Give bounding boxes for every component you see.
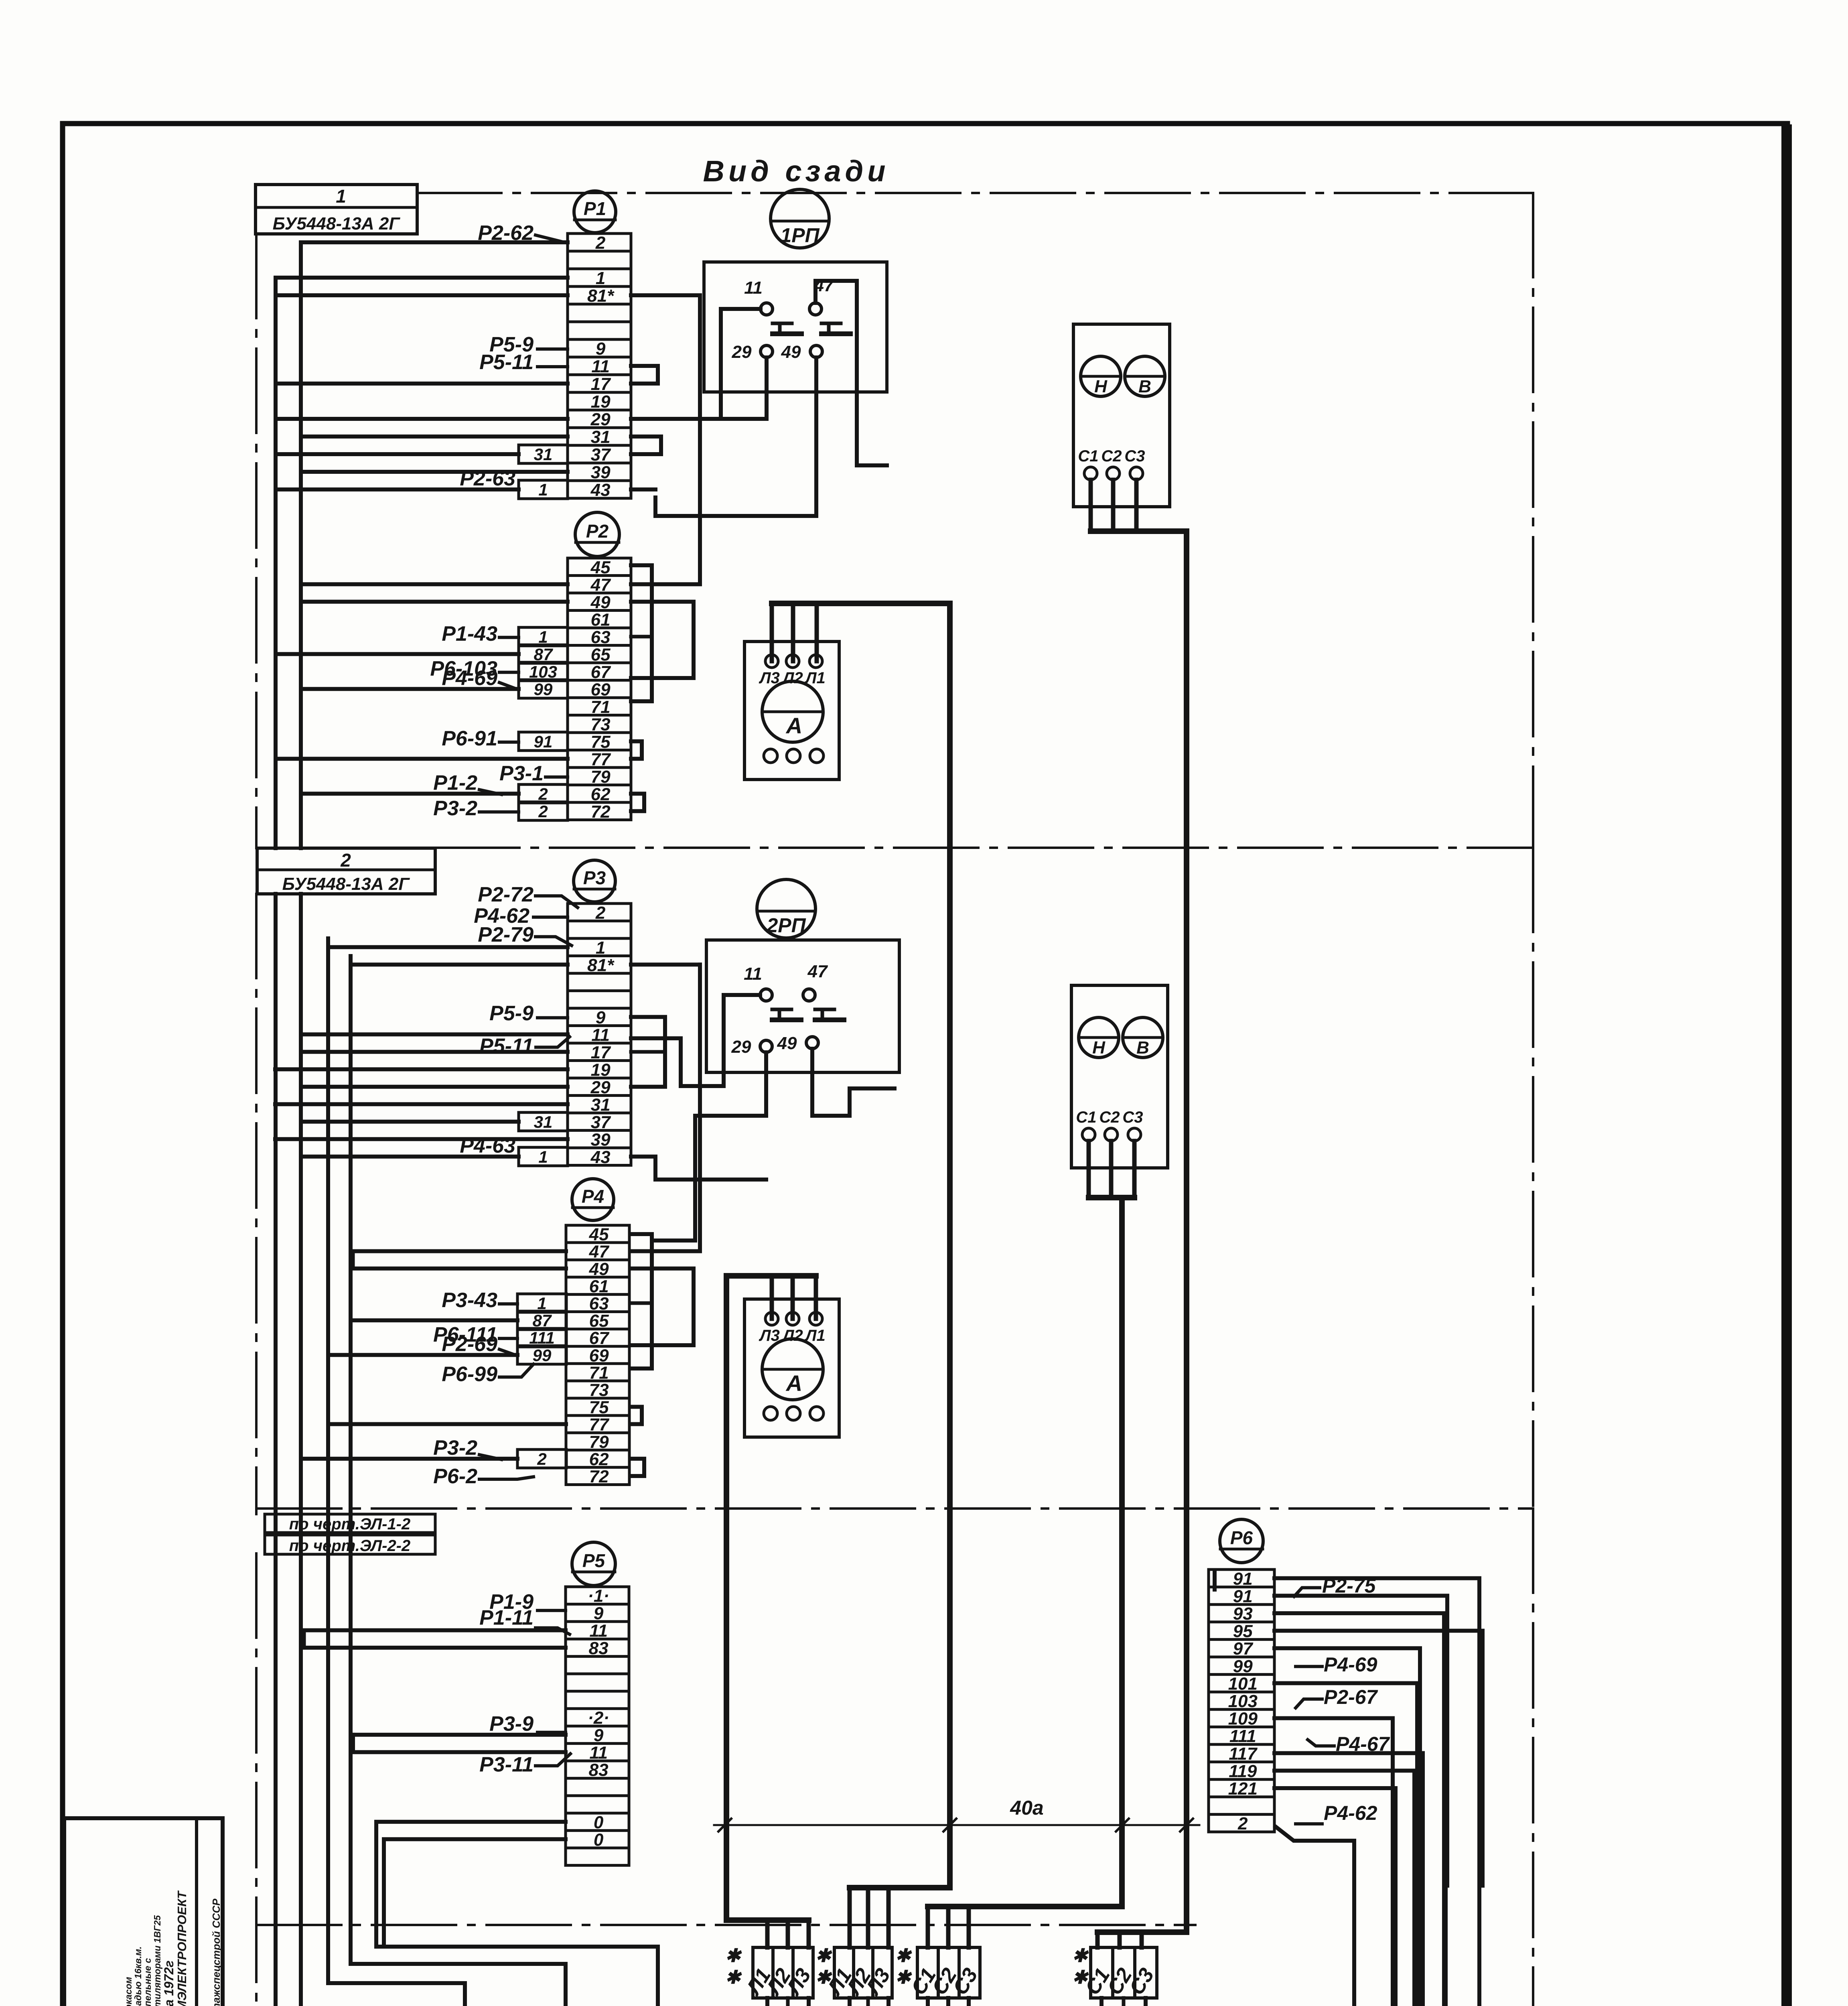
wire to Р3 row 10: [275, 1067, 568, 1071]
wire Р1-2 to Р2:62: [479, 790, 501, 794]
svg-text:2: 2: [595, 233, 606, 253]
svg-text:29: 29: [590, 1078, 611, 1097]
svg-text:95: 95: [1233, 1622, 1253, 1641]
wire Р6:95 down: [1274, 1631, 1483, 1886]
jumper Р1:31-37: [631, 437, 661, 454]
svg-text:1: 1: [538, 1147, 548, 1166]
svg-text:67: 67: [591, 662, 611, 682]
jumper Р3:81-Р4:47: [631, 964, 700, 1251]
svg-text:17: 17: [591, 1043, 611, 1062]
title block rotated text: [71, 1890, 222, 2006]
svg-text:47: 47: [589, 1242, 610, 1262]
Р4 right-side jumpers: [630, 1234, 652, 1368]
wire to Р4 row 8: [328, 1353, 517, 1357]
svg-text:0: 0: [594, 1813, 604, 1832]
svg-text:43: 43: [590, 1147, 611, 1167]
svg-text:37: 37: [591, 1113, 611, 1132]
svg-text:Р1-43: Р1-43: [442, 622, 497, 646]
svg-text:99: 99: [533, 1346, 552, 1364]
wire Р3:43: [631, 1157, 766, 1180]
svg-text:62: 62: [589, 1450, 609, 1469]
svg-text:81*: 81*: [587, 286, 615, 306]
jumper Р2:62-72: [631, 794, 644, 811]
svg-text:Р3-2: Р3-2: [433, 1436, 477, 1460]
svg-text:С2: С2: [1101, 447, 1122, 465]
svg-text:С3: С3: [1124, 447, 1145, 465]
terminal jumper box 1: [517, 1294, 566, 1313]
svg-text:19: 19: [591, 392, 611, 412]
svg-text:✱: ✱: [1072, 1967, 1089, 1988]
wire to Р3 row 9: [301, 1050, 568, 1054]
lower section boundary top (dash-dot): [257, 1507, 1533, 1510]
wire to Р1 row 4: [276, 293, 568, 297]
wire to Р4 row 3: [353, 1267, 566, 1271]
panel 1 boundary top (dash-dot): [417, 192, 1533, 194]
dimension line 40а: [714, 1797, 1199, 1831]
svg-text:49: 49: [590, 593, 611, 612]
panel 1 header box БУ5448-13А 2Г: [256, 185, 417, 234]
jumper Р2:75-77: [631, 741, 642, 759]
svg-text:Р2: Р2: [586, 521, 609, 542]
wire Р1-43 to Р2:63: [499, 636, 519, 639]
svg-text:✱: ✱: [895, 1967, 912, 1988]
wire step to К2-3: [351, 1964, 566, 2006]
svg-text:72: 72: [591, 802, 611, 822]
wire to Р1 row 9: [276, 382, 568, 386]
svg-text:Р4-62: Р4-62: [1324, 1802, 1377, 1824]
collector below box 2: [850, 1998, 889, 2006]
svg-text:63: 63: [591, 627, 611, 647]
svg-text:117: 117: [1229, 1744, 1258, 1764]
svg-text:17: 17: [591, 374, 611, 394]
wire Р6:91 down: [1274, 1578, 1479, 2006]
panel boundary left middle (dash-dot): [255, 894, 258, 1514]
wire Р6:97 down: [1274, 1648, 1420, 2006]
terminal jumper box 2: [519, 802, 568, 821]
svg-text:Р3: Р3: [583, 867, 606, 888]
terminal jumper box 91: [519, 732, 568, 751]
wire Р4-69 to Р2:69: [499, 682, 519, 690]
svg-text:С2: С2: [1099, 1109, 1120, 1126]
svg-text:0: 0: [594, 1830, 604, 1850]
svg-text:69: 69: [591, 680, 611, 699]
svg-text:39: 39: [591, 463, 611, 482]
svg-text:9: 9: [596, 339, 606, 359]
svg-text:Р1: Р1: [584, 198, 606, 219]
panel 1 boundary right (dash-dot): [1532, 193, 1534, 848]
svg-text:2: 2: [1237, 1814, 1248, 1833]
Н/В block 2 cable bundle: [1087, 1141, 1091, 1198]
collector below box 1: [767, 1998, 809, 2006]
trunk wire B lower: [299, 894, 303, 2006]
ammeter А (panel 1): [744, 642, 839, 780]
svg-text:75: 75: [589, 1398, 609, 1417]
wire Р6:2 to ground junction: [1276, 1827, 1354, 2006]
wire to Р2 row 2: [301, 582, 568, 586]
svg-text:2: 2: [595, 903, 606, 923]
wire Р6-91 to Р2:75: [499, 741, 519, 744]
wire Р6:101 down: [1274, 1683, 1417, 2006]
wire Р1-9 to Р5:9: [538, 1609, 566, 1612]
svg-text:91: 91: [534, 732, 553, 751]
svg-text:101: 101: [1228, 1674, 1258, 1693]
wire Р6:109 down: [1274, 1718, 1393, 2006]
svg-text:Р3-9: Р3-9: [489, 1712, 534, 1736]
svg-text:71: 71: [589, 1363, 609, 1383]
terminal strip Р6: [1209, 1569, 1274, 1833]
jumper Р4:49 loop: [631, 1269, 694, 1345]
trunk wire D: [349, 956, 353, 1964]
wire Р3-1 to Р2:79: [546, 776, 568, 779]
svg-text:69: 69: [589, 1346, 609, 1365]
svg-text:9: 9: [594, 1604, 604, 1623]
svg-text:Р3-11: Р3-11: [479, 1753, 534, 1776]
title block frame: [64, 1818, 223, 2006]
reference box по черт.ЭЛ-1-2: [265, 1514, 435, 1533]
svg-text:А: А: [785, 713, 802, 738]
svg-text:С1: С1: [1078, 447, 1098, 465]
terminal jumper box 2: [519, 784, 568, 803]
svg-text:91: 91: [1233, 1569, 1253, 1589]
wire Р2-72 to Р3:2: [536, 896, 578, 908]
svg-text:65: 65: [591, 645, 611, 664]
svg-text:2: 2: [538, 784, 548, 803]
svg-text:9: 9: [594, 1726, 604, 1745]
svg-text:1: 1: [336, 186, 346, 207]
svg-text:45: 45: [590, 558, 611, 577]
terminal strip Р5: [566, 1586, 629, 1866]
polarity tick on Р6 row 91: [1213, 1572, 1217, 1590]
wire to Р1 row 12: [301, 434, 568, 439]
wire Р5-9 to Р3:9: [538, 1016, 568, 1019]
svg-text:121: 121: [1228, 1779, 1258, 1799]
Н/В indicator block (panel 1): [1073, 324, 1170, 507]
svg-text:Р5-11: Р5-11: [479, 351, 534, 374]
wire Р5:0 down: [376, 1822, 566, 1947]
Р2 right-side jumpers: [631, 565, 652, 701]
trunk wire A upper: [274, 278, 278, 848]
svg-text:79: 79: [591, 767, 611, 787]
wire to Щит диспетчера 353: [376, 1947, 658, 2006]
svg-text:Р6-2: Р6-2: [433, 1465, 477, 1488]
relay panel designator 2РП: [757, 879, 815, 938]
wire to Р4 row 2: [351, 1249, 566, 1253]
terminal jumper box 2: [517, 1450, 566, 1468]
svg-text:79: 79: [589, 1432, 609, 1452]
terminal strip Р3: [568, 903, 631, 1167]
wire Р2-69 to Р4:69: [499, 1349, 517, 1356]
svg-text:С1: С1: [1076, 1109, 1096, 1126]
svg-text:Р3-2: Р3-2: [433, 797, 477, 820]
svg-text:119: 119: [1229, 1761, 1257, 1781]
svg-text:Р5-11: Р5-11: [479, 1034, 534, 1058]
svg-text:Р4-69: Р4-69: [1324, 1653, 1377, 1676]
2РП contact wiring: [631, 995, 760, 1086]
svg-text:В: В: [1136, 1038, 1149, 1058]
terminal strip designator Р6: [1220, 1519, 1263, 1563]
wire Р2-62 to Р1:2: [536, 235, 568, 243]
svg-text:91: 91: [1233, 1586, 1253, 1606]
wire to Р2 row 8: [301, 687, 519, 691]
svg-text:секциями площадью 16кв.м.: секциями площадью 16кв.м.: [133, 1946, 143, 2006]
svg-text:31: 31: [534, 1113, 553, 1131]
svg-text:2: 2: [538, 802, 548, 821]
svg-text:75: 75: [591, 732, 611, 752]
Н/В indicator block (panel 2): [1071, 985, 1168, 1168]
wire Р3-9 to Р5:9(2): [538, 1731, 566, 1734]
svg-text:1РП: 1РП: [780, 224, 820, 246]
wire Р6-2 to Р4:72: [479, 1477, 534, 1479]
wire to Р1 row 15: [276, 487, 519, 491]
reference box по черт.ЭЛ-2-2: [265, 1535, 435, 1555]
wire Р1:29 to 1РП: [631, 417, 721, 421]
svg-text:62: 62: [591, 784, 611, 804]
svg-text:С3: С3: [1122, 1109, 1143, 1126]
wire to Р1 row 3: [276, 276, 568, 280]
svg-text:·1·: ·1·: [588, 1586, 609, 1606]
wire Р4-63 to Р3:43: [467, 1155, 519, 1158]
svg-text:✱: ✱: [725, 1945, 742, 1966]
wire Р6:117: [1274, 1751, 1423, 1755]
svg-text:Градирни с вентиляторами 1ВГ25: Градирни с вентиляторами 1ВГ25: [152, 1915, 162, 2006]
relay panel designator 1РП: [771, 189, 829, 248]
svg-text:29: 29: [731, 1037, 751, 1057]
wire to Н2-1: [946, 1998, 950, 2006]
svg-text:✱: ✱: [815, 1945, 832, 1966]
wire Р3-2 to Р2:72: [479, 810, 519, 814]
ammeter 1 cable bundle: [770, 603, 774, 661]
svg-text:43: 43: [590, 480, 611, 500]
svg-text:93: 93: [1233, 1604, 1253, 1624]
svg-text:11: 11: [589, 1743, 608, 1762]
svg-text:11: 11: [744, 278, 763, 298]
terminal jumper box 1: [519, 627, 568, 646]
svg-text:1: 1: [538, 480, 548, 499]
svg-text:✱: ✱: [815, 1967, 832, 1988]
inner boundary (dash-dot): [257, 1924, 1195, 1926]
cable terminal box С1С2С3 (2): [1081, 1947, 1158, 1999]
svg-text:29: 29: [732, 342, 752, 362]
svg-text:Р4-69: Р4-69: [442, 666, 497, 690]
svg-text:11: 11: [591, 357, 610, 376]
svg-text:19: 19: [591, 1060, 611, 1080]
svg-text:81*: 81*: [587, 955, 615, 975]
terminal strip Р1: [568, 233, 631, 500]
panel boundary left lower (dash-dot): [255, 1553, 258, 2006]
wire Р1-11 to Р5:11: [536, 1628, 570, 1634]
svg-text:Р6: Р6: [1230, 1527, 1253, 1548]
collector below box 3: [928, 1998, 969, 2006]
jumper Р1:81-Р2:47: [631, 295, 700, 584]
ammeter А (panel 2): [744, 1299, 839, 1437]
wire to Р3 row 12: [275, 1102, 568, 1106]
panel boundary between sections (dash-dot): [435, 847, 1533, 849]
terminal strip designator Р1: [574, 191, 616, 233]
wire to Р2 row 14: [301, 792, 519, 796]
svg-text:Р4: Р4: [582, 1186, 604, 1207]
wire Р6:121: [1274, 1788, 1396, 2006]
Р3 right-side jumpers: [631, 962, 700, 966]
jumper Р2:49 loop: [631, 602, 694, 678]
svg-text:103: 103: [1228, 1691, 1258, 1711]
wire Р6-103 to Р2:67: [499, 671, 519, 674]
svg-text:77: 77: [589, 1415, 610, 1435]
ammeter 2 cable bundle: [770, 1276, 774, 1319]
wire to 352: [1444, 1886, 1448, 2006]
terminal jumper box 99: [519, 680, 568, 698]
wire to Р5 row 9: [351, 1733, 566, 1737]
svg-text:31: 31: [591, 427, 611, 447]
svg-text:39: 39: [591, 1130, 611, 1149]
wire to Р1 row 13: [276, 452, 519, 456]
svg-text:пленочные и капельные с: пленочные и капельные с: [142, 1958, 153, 2006]
svg-text:99: 99: [534, 680, 553, 698]
wire Р6-111 to Р4:67: [499, 1337, 517, 1340]
collector below box 4: [1101, 1998, 1146, 2006]
svg-text:В: В: [1138, 377, 1151, 396]
trunk wire A lower to К1-2: [274, 894, 278, 2006]
svg-text:87: 87: [534, 645, 553, 664]
terminal strip designator Р2: [575, 512, 619, 556]
terminal jumper box 87: [519, 645, 568, 664]
svg-text:9: 9: [596, 1008, 606, 1027]
Р1 right-side jumpers: [631, 293, 700, 297]
terminal strip designator Р5: [572, 1542, 615, 1586]
lower section boundary right (dash-dot): [1532, 1509, 1534, 2006]
wire Р3-11 to Р5:11(2): [536, 1754, 570, 1766]
svg-text:2РП: 2РП: [766, 914, 806, 936]
svg-text:✱: ✱: [725, 1967, 742, 1988]
svg-text:109: 109: [1228, 1709, 1258, 1729]
wire Р6:93 down to 352: [1274, 1613, 1444, 2006]
svg-text:Р2-72: Р2-72: [478, 883, 534, 906]
wire to Р3 row 14: [275, 1137, 568, 1141]
wire Р3-2 to Р4:62: [479, 1455, 501, 1460]
wire to Р2 row 12: [276, 757, 568, 761]
svg-text:40а: 40а: [1010, 1797, 1043, 1819]
svg-text:Р6-91: Р6-91: [442, 727, 497, 750]
wire Р5-9 to Р1:9: [538, 347, 568, 351]
svg-text:Р2-79: Р2-79: [478, 923, 534, 946]
wire Р4-62 to Р3:2: [534, 916, 568, 919]
svg-text:1: 1: [596, 268, 605, 288]
relay contact box 1РП: [704, 262, 887, 392]
terminal strip designator Р4: [572, 1179, 614, 1220]
wire Р3-43 to Р4:63: [499, 1302, 517, 1306]
svg-text:Н: Н: [1094, 377, 1108, 396]
svg-text:2: 2: [340, 850, 351, 871]
terminal jumper box 1: [519, 480, 568, 499]
jumper Р1:11-17: [631, 366, 658, 384]
svg-text:Р6-99: Р6-99: [442, 1362, 497, 1386]
wire to Р3 row 11: [301, 1085, 568, 1089]
svg-text:63: 63: [589, 1294, 609, 1314]
svg-text:37: 37: [591, 445, 611, 465]
wire Р5-11 to Р1:11: [538, 365, 568, 368]
wire Р2-63 to Р1:43: [467, 488, 519, 491]
svg-text:1: 1: [538, 627, 548, 646]
svg-text:Р2-67: Р2-67: [1324, 1686, 1378, 1708]
svg-text:45: 45: [589, 1225, 609, 1245]
wire to Р4 row 6: [351, 1318, 517, 1322]
svg-text:73: 73: [589, 1380, 609, 1400]
wire to Р3 row 13: [301, 1120, 519, 1124]
svg-text:Р3-43: Р3-43: [442, 1289, 497, 1312]
svg-text:11: 11: [744, 964, 762, 984]
svg-text:61: 61: [589, 1277, 609, 1296]
svg-text:ТЯЖПРОМЭЛЕКТРОПРОЕКТ: ТЯЖПРОМЭЛЕКТРОПРОЕКТ: [175, 1890, 189, 2006]
svg-text:97: 97: [1233, 1639, 1254, 1659]
svg-text:47: 47: [590, 575, 611, 595]
cable terminal box Л1Л2Л3 (1): [741, 1947, 816, 2000]
1РП contact wiring: [721, 309, 767, 419]
svg-text:Р5-9: Р5-9: [489, 1002, 534, 1025]
wire to Р1 row 11: [276, 417, 568, 421]
wire to Р3 row 8: [301, 1032, 568, 1036]
wire to Р5 row 4: [304, 1646, 566, 1650]
svg-text:83: 83: [589, 1760, 609, 1780]
svg-text:Вид сзади: Вид сзади: [703, 154, 890, 188]
terminal jumper box 87: [517, 1311, 566, 1330]
svg-text:31: 31: [591, 1095, 611, 1115]
wire step to К2-2: [328, 1983, 465, 2006]
jumper Р4:75-77: [630, 1407, 642, 1424]
svg-text:67: 67: [589, 1328, 610, 1348]
svg-text:31: 31: [534, 445, 553, 464]
svg-text:БУ5448-13А 2Г: БУ5448-13А 2Г: [282, 874, 410, 894]
svg-text:Л2: Л2: [782, 1327, 803, 1344]
svg-text:Л2: Л2: [782, 669, 803, 687]
svg-text:29: 29: [590, 410, 611, 429]
svg-text:71: 71: [591, 697, 611, 717]
wire to Р2 row 3: [304, 600, 568, 604]
wire to Р2 row 6: [276, 652, 519, 656]
wire to Р3 row 4: [351, 962, 568, 966]
wire to Р5 row 10: [353, 1735, 566, 1752]
panel 2 boundary right (dash-dot): [1532, 848, 1534, 1509]
svg-text:Минмонтажспецстрой СССР: Минмонтажспецстрой СССР: [210, 1898, 222, 2006]
svg-text:А: А: [785, 1370, 802, 1396]
terminal jumper box 31: [519, 1113, 568, 1131]
svg-text:49: 49: [781, 342, 801, 362]
wire Р6-99 to Р4:69: [499, 1364, 534, 1377]
wire to Р3 row 3: [328, 945, 568, 949]
svg-text:49: 49: [589, 1259, 609, 1279]
wire Р5-11 to Р3:11: [536, 1037, 570, 1047]
jumper Р4:62-72: [630, 1459, 644, 1476]
wire Р5:0(2) down: [384, 1839, 566, 1945]
svg-text:Р3-1: Р3-1: [499, 762, 544, 785]
terminal jumper box 31: [519, 445, 568, 464]
wire to Р4 row 14: [301, 1457, 517, 1461]
svg-text:99: 99: [1233, 1657, 1253, 1676]
svg-text:г. Москва 1972г: г. Москва 1972г: [162, 1960, 176, 2006]
trunk wire C: [326, 938, 330, 1983]
panel 2 header box БУ5448-13А 2Г: [257, 848, 435, 894]
svg-text:83: 83: [589, 1639, 609, 1658]
wire to Р1 row 1: [301, 240, 568, 244]
relay contact box 2РП: [706, 940, 899, 1072]
svg-text:49: 49: [777, 1033, 797, 1053]
svg-text:1: 1: [596, 938, 605, 958]
svg-text:✱: ✱: [895, 1945, 912, 1966]
wire Р1:43 to 1РП:49: [631, 487, 655, 491]
svg-text:103: 103: [529, 662, 557, 681]
svg-text:73: 73: [591, 715, 611, 734]
cable terminal box С1С2С3 (1): [907, 1947, 982, 1999]
terminal jumper box 99: [517, 1346, 566, 1364]
svg-text:·2·: ·2·: [588, 1708, 609, 1728]
